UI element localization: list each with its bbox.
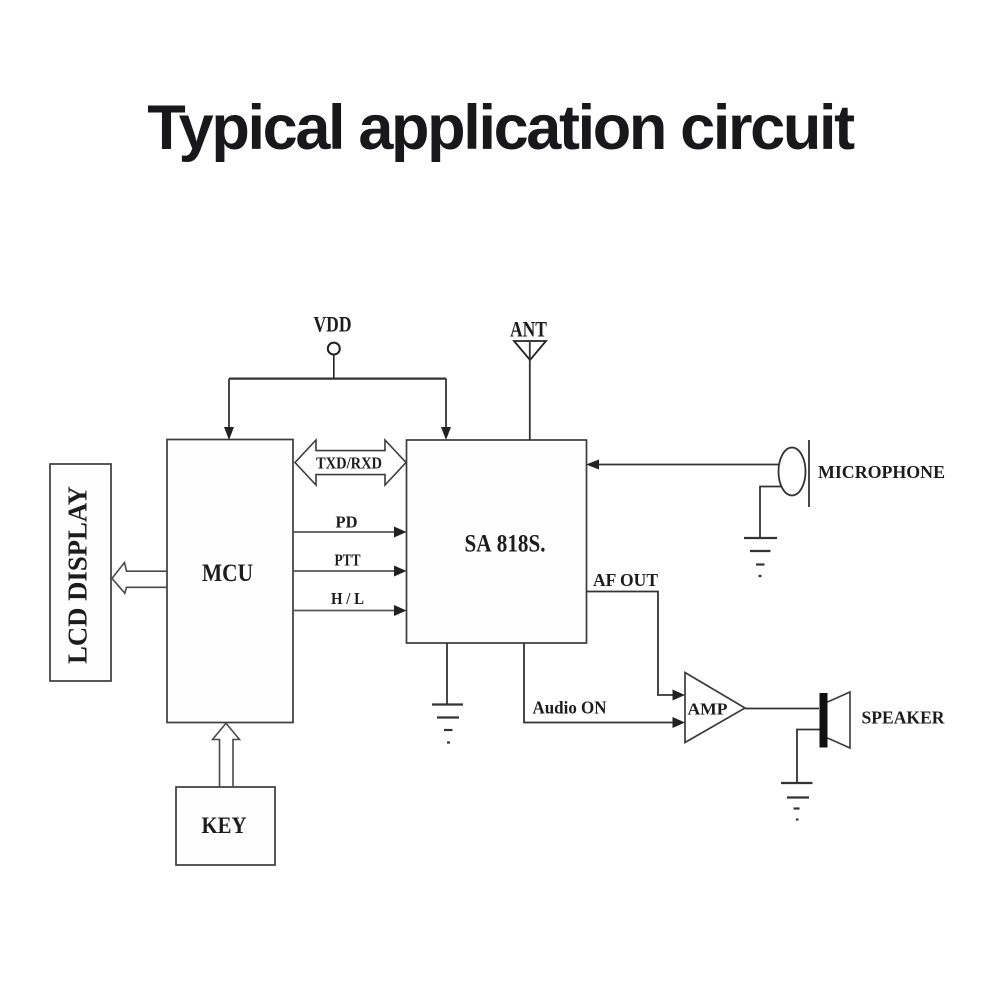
svg-text:LCD DISPLAY: LCD DISPLAY <box>63 486 93 664</box>
svg-text:TXD/RXD: TXD/RXD <box>316 454 382 473</box>
wire VDD bus horizontal <box>229 378 446 380</box>
hollow arrow KEY to MCU <box>213 723 240 787</box>
block LCD DISPLAY <box>50 464 111 681</box>
arrowhead PTT into SA818S <box>394 566 407 577</box>
svg-text:SA 818S.: SA 818S. <box>465 531 546 558</box>
ground (SA818S) <box>432 705 463 743</box>
svg-text:VDD: VDD <box>314 312 352 337</box>
svg-text:Audio ON: Audio ON <box>533 698 607 718</box>
arrowhead Audio ON into AMP <box>673 717 686 728</box>
arrowhead AF OUT into AMP <box>673 690 686 701</box>
svg-text:SPEAKER: SPEAKER <box>862 708 946 728</box>
svg-text:AMP: AMP <box>688 700 728 719</box>
wire ANT to SA818S <box>529 341 531 440</box>
speaker LS1 driver <box>820 693 828 748</box>
microphone MK1 capsule <box>779 448 806 496</box>
svg-text:MCU: MCU <box>202 560 253 587</box>
wire speaker ground branch <box>797 730 820 784</box>
svg-text:AF OUT: AF OUT <box>593 570 658 590</box>
hollow arrow MCU to LCD <box>112 563 167 594</box>
wire microphone to SA818S <box>592 464 779 466</box>
wire VDD to SA818S <box>445 379 447 431</box>
wire AF OUT <box>586 592 676 696</box>
wire microphone ground branch <box>760 487 782 539</box>
svg-text:H / L: H / L <box>331 589 364 608</box>
block KEY <box>176 787 275 865</box>
svg-text:PTT: PTT <box>335 551 362 570</box>
block U1 SA818S <box>407 440 587 643</box>
arrowhead H/L into SA818S <box>394 605 407 616</box>
svg-text:PD: PD <box>336 513 358 532</box>
svg-text:KEY: KEY <box>202 813 247 838</box>
wire SA818S ground stub <box>446 643 448 705</box>
wire VDD stub <box>333 355 335 379</box>
microphone MK1 face bar <box>808 440 810 507</box>
arrowhead VDD into SA818S <box>441 427 451 440</box>
svg-text:MICROPHONE: MICROPHONE <box>818 462 945 482</box>
bus arrow TXD/RXD <box>295 440 406 485</box>
wire VDD to MCU <box>228 379 230 431</box>
wire AMP to speaker <box>745 708 819 710</box>
wire PTT <box>293 570 398 572</box>
speaker LS1 horn <box>828 692 851 748</box>
wire Audio ON <box>524 643 676 723</box>
svg-text:ANT: ANT <box>510 317 547 342</box>
block MCU <box>167 440 293 723</box>
wire PD <box>293 531 398 533</box>
title <box>0 92 1000 164</box>
arrowhead mic wire into SA818S <box>586 460 599 470</box>
ground (speaker) <box>781 783 813 820</box>
arrowhead VDD into MCU <box>224 427 234 440</box>
VDD terminal circle <box>328 343 340 355</box>
wire H/L <box>293 610 398 612</box>
ground (microphone) <box>744 538 777 576</box>
antenna ANT symbol <box>514 341 546 360</box>
arrowhead PD into SA818S <box>394 527 407 538</box>
op-amp AMP <box>685 673 745 743</box>
